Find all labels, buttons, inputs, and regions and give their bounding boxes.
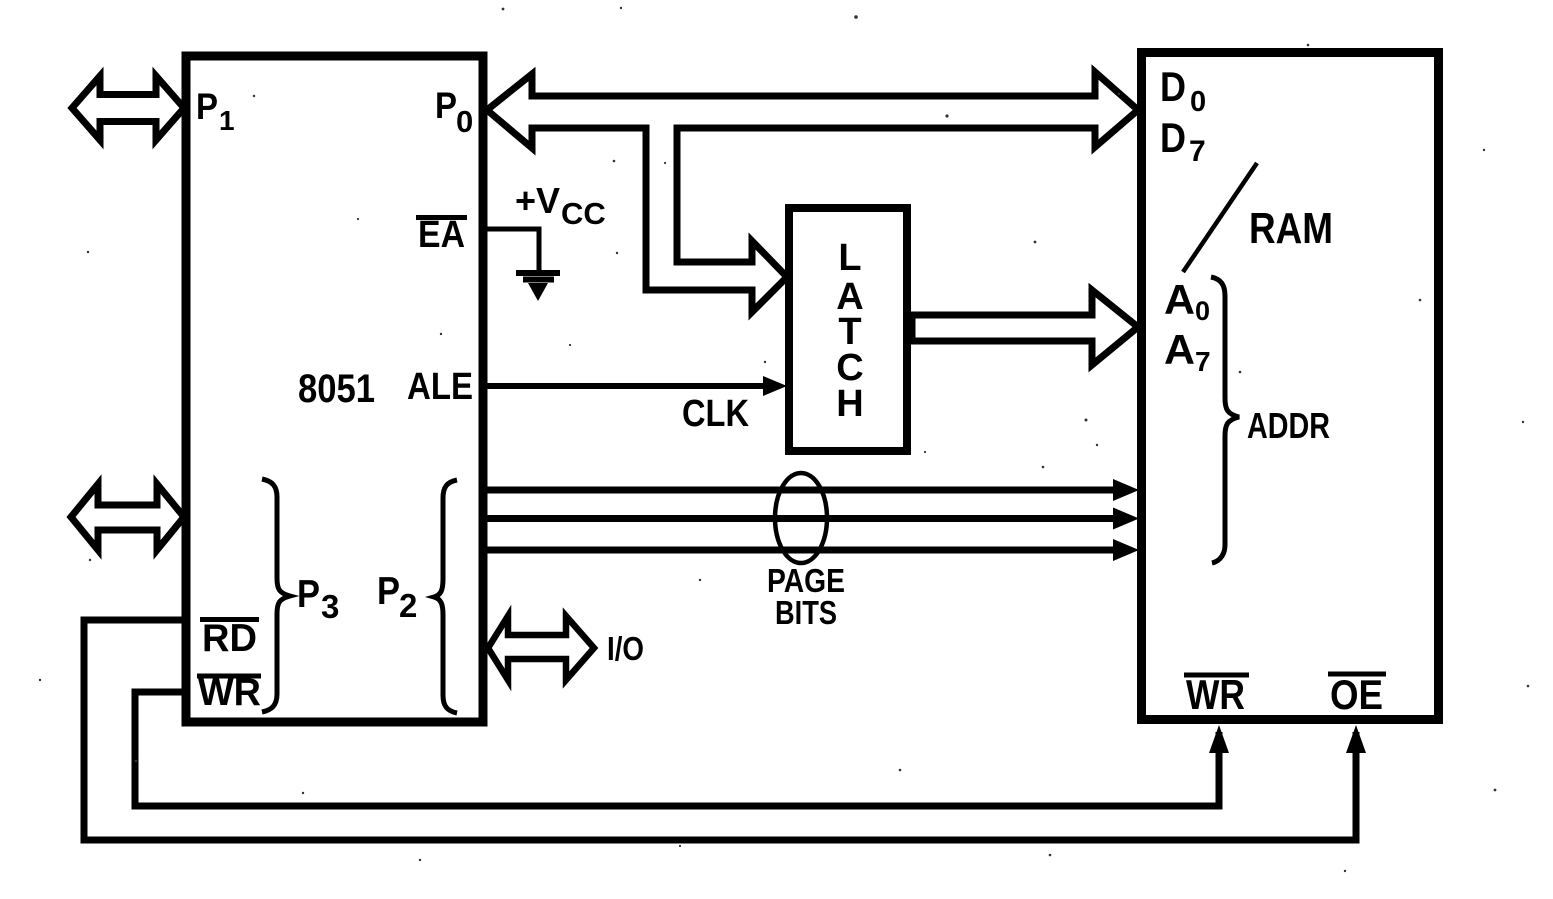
svg-text:0: 0 xyxy=(456,104,473,139)
svg-text:P: P xyxy=(435,85,457,126)
svg-text:7: 7 xyxy=(1189,135,1206,168)
svg-text:P: P xyxy=(196,86,218,127)
svg-text:P: P xyxy=(297,573,320,616)
svg-text:ADDR: ADDR xyxy=(1247,405,1330,446)
svg-text:OE: OE xyxy=(1330,671,1383,718)
svg-text:2: 2 xyxy=(399,587,417,624)
svg-text:0: 0 xyxy=(1195,296,1210,326)
svg-text:RD: RD xyxy=(202,617,257,660)
svg-text:A: A xyxy=(1164,276,1195,323)
svg-text:P: P xyxy=(377,570,400,613)
svg-text:8051: 8051 xyxy=(298,367,375,411)
svg-text:CLK: CLK xyxy=(682,393,749,435)
svg-text:A: A xyxy=(1164,326,1195,373)
svg-text:3: 3 xyxy=(321,588,339,625)
svg-text:BITS: BITS xyxy=(775,594,837,631)
svg-text:I/O: I/O xyxy=(607,630,644,667)
svg-text:WR: WR xyxy=(1186,671,1245,718)
svg-text:0: 0 xyxy=(1190,86,1206,118)
svg-text:D: D xyxy=(1160,114,1186,161)
svg-text:7: 7 xyxy=(1195,346,1211,377)
svg-text:H: H xyxy=(836,383,863,425)
svg-text:ALE: ALE xyxy=(407,366,473,408)
svg-text:D: D xyxy=(1160,63,1186,110)
svg-text:L: L xyxy=(838,237,861,279)
svg-text:RAM: RAM xyxy=(1249,204,1333,253)
svg-text:+V: +V xyxy=(515,180,560,221)
svg-text:CC: CC xyxy=(561,196,606,231)
svg-text:1: 1 xyxy=(219,105,235,136)
svg-text:EA: EA xyxy=(418,214,465,256)
